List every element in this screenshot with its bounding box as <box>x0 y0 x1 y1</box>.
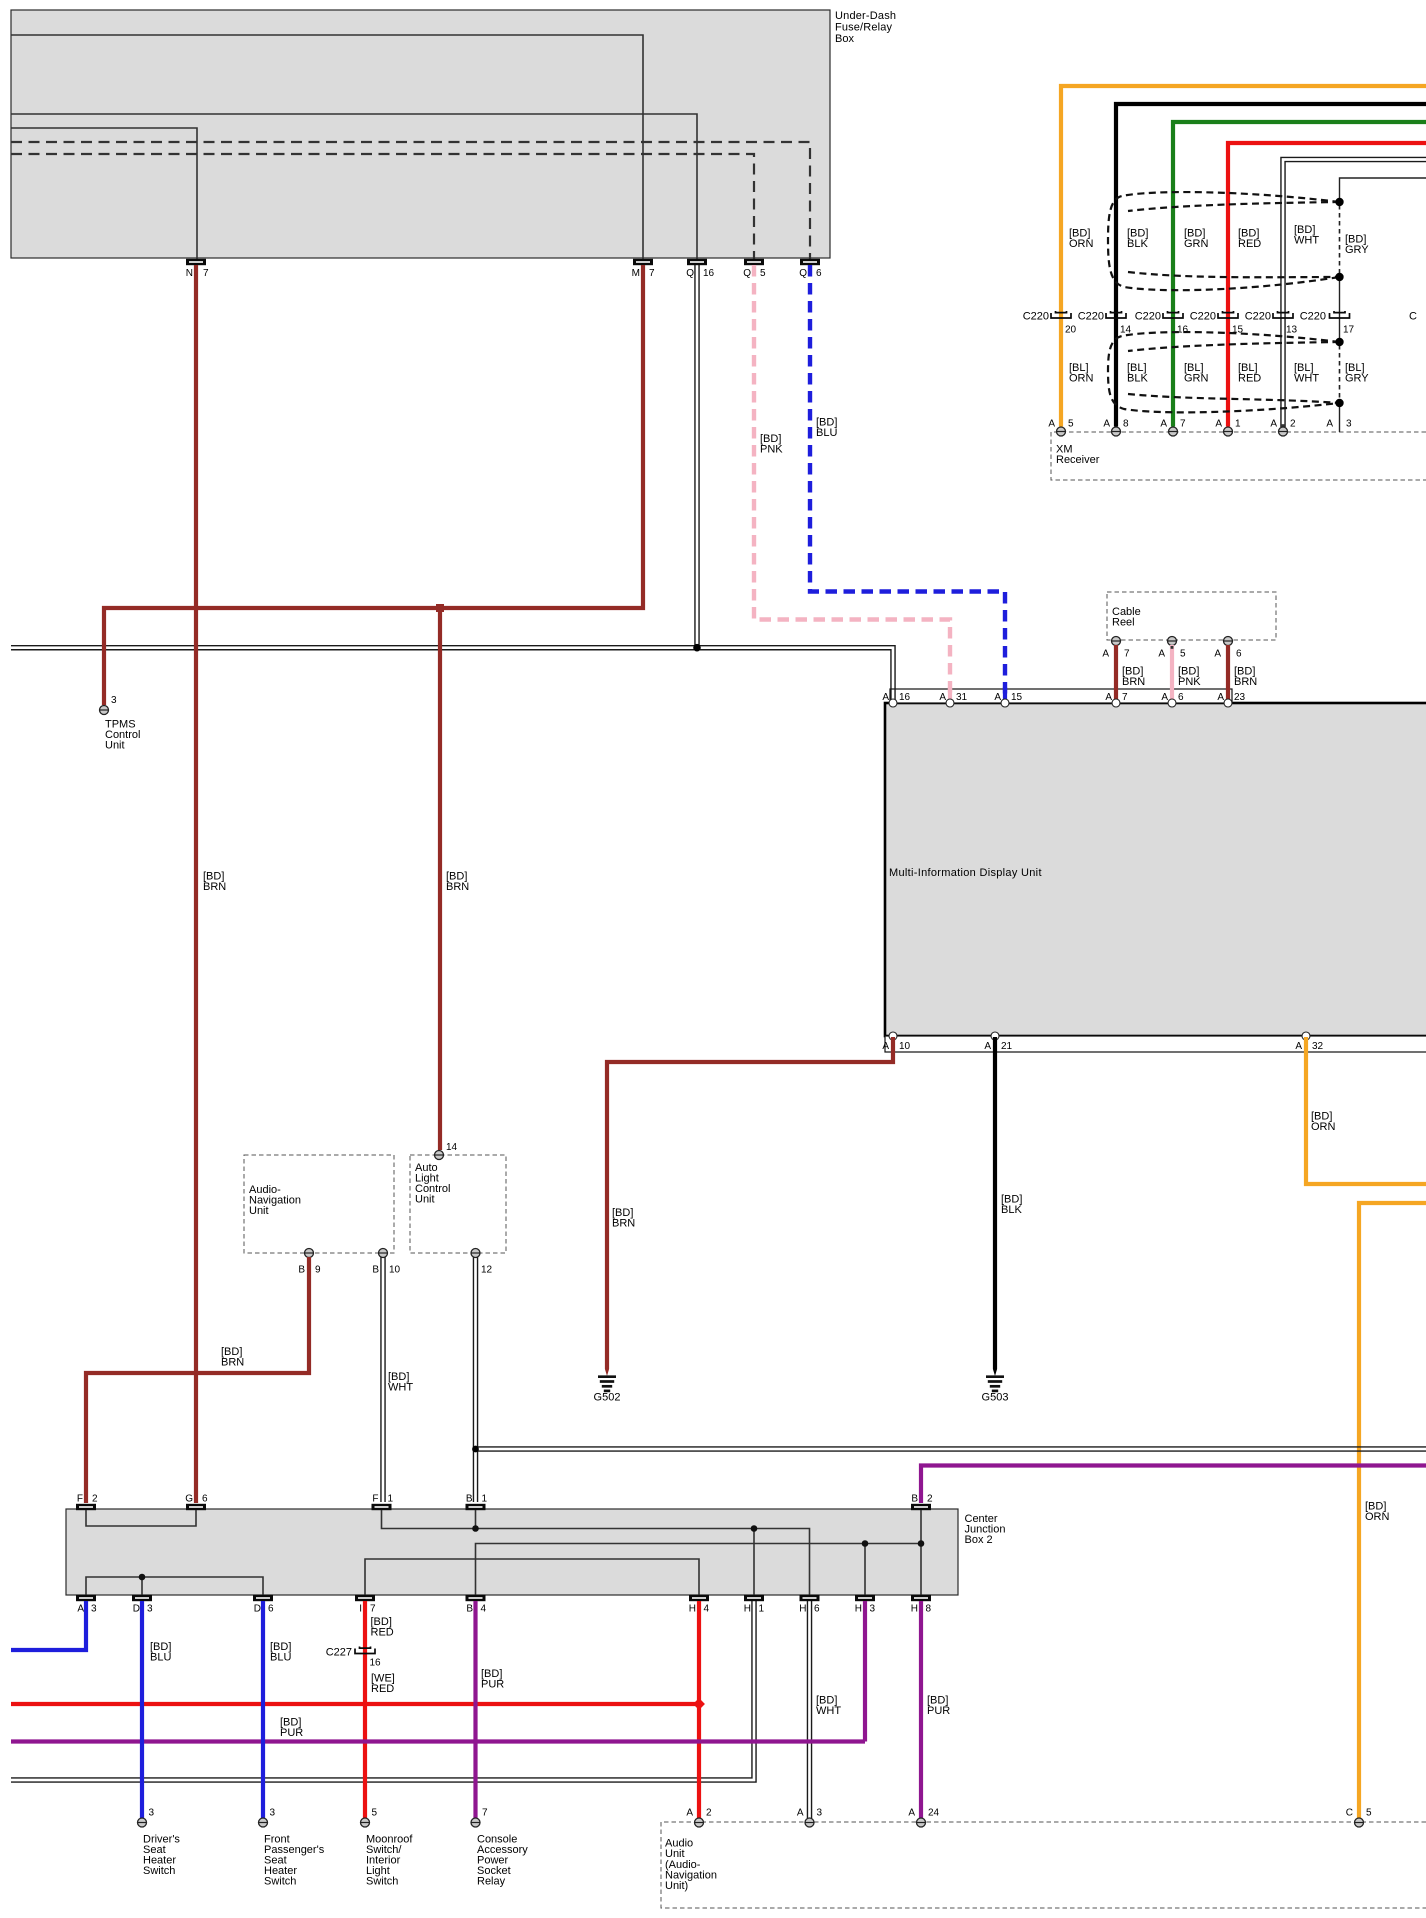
label [BD] GRN <box>1184 228 1209 251</box>
svg-text:15: 15 <box>1011 692 1023 703</box>
svg-text:Q: Q <box>799 268 807 279</box>
svg-text:H: H <box>744 1604 751 1615</box>
terminal auto light pin 12 <box>471 1249 493 1276</box>
wire fuse box internal line to Q16 <box>11 114 697 259</box>
wire [BD] BRN MID A10 to G502 <box>607 1037 893 1369</box>
svg-text:7: 7 <box>482 1808 488 1819</box>
junction dot BRN branch <box>436 604 444 612</box>
svg-text:7: 7 <box>1122 692 1128 703</box>
svg-text:PUR: PUR <box>481 1679 504 1691</box>
svg-text:WHT: WHT <box>388 1382 413 1394</box>
audio unit dashed box <box>661 1822 1426 1908</box>
wire fuse box internal dashed line to Q5 <box>11 154 754 259</box>
connector pin Q 5 <box>743 259 766 279</box>
connector C220 pin 17 <box>1300 311 1355 336</box>
label [BD] RED <box>1238 228 1261 251</box>
svg-text:A: A <box>1215 419 1222 430</box>
label [BD] BRN B9 wire <box>221 1346 244 1369</box>
svg-text:16: 16 <box>370 1658 382 1669</box>
svg-text:B: B <box>466 1604 473 1615</box>
multi-information display unit box <box>885 703 1426 1036</box>
shield oval lower outer <box>1108 332 1340 412</box>
connector C220 pin 14 <box>1078 311 1132 336</box>
ground G503 <box>982 1369 1009 1404</box>
cable reel dashed box <box>1107 592 1276 640</box>
svg-text:5: 5 <box>1366 1808 1372 1819</box>
label [BD] PUR B4 <box>481 1668 504 1691</box>
svg-text:Relay: Relay <box>477 1876 506 1888</box>
terminal XM A 1 <box>1215 419 1241 437</box>
wire [BD]/[WE] RED I7 to moonroof switch <box>363 1601 367 1818</box>
svg-text:G: G <box>185 1494 193 1505</box>
svg-text:8: 8 <box>926 1604 932 1615</box>
wire [BD] GRN XM <box>1173 122 1426 427</box>
svg-text:H: H <box>911 1604 918 1615</box>
svg-text:BRN: BRN <box>1234 676 1257 688</box>
svg-text:8: 8 <box>1123 419 1129 430</box>
svg-text:I: I <box>359 1604 362 1615</box>
svg-text:Multi-Information Display Unit: Multi-Information Display Unit <box>889 867 1042 879</box>
MID top connector bar <box>890 689 1232 703</box>
shield oval upper outer <box>1108 192 1340 290</box>
under-dash fuse/relay box <box>11 10 830 258</box>
shield junction dot lower top <box>1335 338 1343 346</box>
MID pin A 15 <box>994 692 1022 707</box>
svg-text:17: 17 <box>1343 325 1355 336</box>
wire [BD] RED XM <box>1228 143 1426 427</box>
label [BL] GRY <box>1345 362 1369 385</box>
shield oval upper inner <box>1128 202 1340 277</box>
svg-text:WHT: WHT <box>1294 235 1319 247</box>
label [BD] BLU <box>816 417 837 440</box>
wire white XM WHT <box>1281 157 1426 427</box>
wire end tick pink <box>1171 646 1174 649</box>
connector pin N 7 <box>186 259 209 279</box>
svg-text:7: 7 <box>1124 649 1130 660</box>
svg-text:ORN: ORN <box>1365 1511 1390 1523</box>
svg-text:D: D <box>254 1604 261 1615</box>
svg-text:BLU: BLU <box>270 1652 291 1664</box>
connector C220 pin 20 <box>1023 311 1077 336</box>
label [BL] BLK <box>1127 362 1148 385</box>
svg-text:B: B <box>298 1265 305 1276</box>
label [BD] WHT B10 wire <box>388 1371 413 1394</box>
connector C220 pin 13 <box>1245 311 1298 336</box>
junction dot white Q16 <box>693 644 701 652</box>
label [WE] RED <box>371 1673 395 1696</box>
svg-text:2: 2 <box>1290 419 1296 430</box>
svg-text:A: A <box>686 1808 693 1819</box>
CJB2 pin B 1 <box>466 1494 488 1511</box>
svg-text:Unit): Unit) <box>665 1880 688 1892</box>
svg-text:Q: Q <box>686 268 694 279</box>
center junction box 2 label <box>965 1513 1006 1546</box>
svg-text:A: A <box>1105 692 1112 703</box>
CJB2 pin D 6 <box>253 1595 274 1615</box>
terminal XM A 2 <box>1270 419 1296 437</box>
svg-text:C: C <box>1346 1808 1353 1819</box>
svg-text:2: 2 <box>706 1808 712 1819</box>
svg-text:6: 6 <box>814 1604 820 1615</box>
wire [BD] ORN from right edge to audio C5 <box>1359 1203 1426 1818</box>
svg-text:6: 6 <box>1236 649 1242 660</box>
svg-text:3: 3 <box>1346 419 1352 430</box>
svg-text:Switch: Switch <box>143 1865 175 1877</box>
wire [BD] PUR H8 to audio A24 <box>919 1601 923 1818</box>
CJB2 internal net B4-H3-B2-H8 <box>476 1510 922 1595</box>
svg-text:G503: G503 <box>982 1392 1009 1404</box>
auto light control unit label <box>415 1162 450 1206</box>
CJB2 pin B 2 <box>911 1494 933 1511</box>
CJB2 pin F 1 <box>372 1494 394 1511</box>
label [BD] PUR H8 <box>927 1695 950 1718</box>
svg-text:C: C <box>1409 311 1417 323</box>
wire [BD] BLU D6 to passenger seat heater switch <box>261 1601 265 1818</box>
svg-text:3: 3 <box>91 1604 97 1615</box>
svg-text:H: H <box>689 1604 696 1615</box>
svg-text:A: A <box>1158 649 1165 660</box>
driver seat heater switch label <box>143 1834 180 1878</box>
svg-text:GRY: GRY <box>1345 373 1369 385</box>
svg-text:BLK: BLK <box>1127 373 1148 385</box>
label [BD] BRN cable reel left <box>1122 666 1145 689</box>
wire [BD] BLK MID A21 to G503 <box>993 1037 997 1369</box>
wire [BD] BLU D3 to driver seat heater switch <box>140 1601 144 1818</box>
svg-text:BLU: BLU <box>150 1652 171 1664</box>
svg-text:2: 2 <box>92 1494 98 1505</box>
svg-text:C227: C227 <box>326 1647 352 1659</box>
MID pin A 31 <box>939 692 967 707</box>
svg-text:14: 14 <box>1120 325 1132 336</box>
svg-text:BRN: BRN <box>203 881 226 893</box>
svg-text:31: 31 <box>956 692 968 703</box>
svg-text:20: 20 <box>1065 325 1077 336</box>
passenger seat heater switch label <box>264 1834 325 1888</box>
MID pin A 6 <box>1161 692 1184 707</box>
svg-text:A: A <box>1102 649 1109 660</box>
svg-text:3: 3 <box>270 1808 276 1819</box>
svg-text:ORN: ORN <box>1069 238 1094 250</box>
shield oval lower inner <box>1128 342 1340 403</box>
connector pin Q 16 <box>686 259 714 279</box>
terminal cable reel A 7 <box>1102 637 1130 660</box>
svg-text:7: 7 <box>1180 419 1186 430</box>
MID pin A 21 <box>984 1032 1012 1052</box>
wire [BD] GRY shield dashed upper <box>1339 205 1341 274</box>
CJB2 junction dot H1 <box>751 1525 758 1532</box>
CJB2 pin H 3 <box>855 1595 876 1615</box>
console accessory power socket relay label <box>477 1834 528 1888</box>
svg-text:A: A <box>1295 1041 1302 1052</box>
label [BL] RED <box>1238 362 1261 385</box>
CJB2 pin H 4 <box>689 1595 710 1615</box>
wire white from B10 to F1 <box>381 1257 385 1502</box>
CJB2 internal net A3-D3-D6 <box>86 1577 263 1595</box>
wire [BD] PNK cable reel A5 to MID A6 <box>1170 645 1174 700</box>
svg-text:A: A <box>77 1604 84 1615</box>
svg-text:Fuse/Relay: Fuse/Relay <box>835 22 893 34</box>
svg-text:PNK: PNK <box>1178 676 1201 688</box>
svg-text:C220: C220 <box>1023 311 1049 323</box>
svg-text:7: 7 <box>370 1604 376 1615</box>
connector C220 pin 15 <box>1190 311 1244 336</box>
svg-text:24: 24 <box>928 1808 940 1819</box>
svg-text:14: 14 <box>446 1142 458 1153</box>
CJB2 junction dot B2-H8 <box>918 1540 925 1547</box>
svg-text:3: 3 <box>149 1808 155 1819</box>
terminal XM A 8 <box>1103 419 1129 437</box>
wire GRY shield solid mid <box>1339 277 1341 342</box>
svg-text:21: 21 <box>1001 1041 1013 1052</box>
svg-text:BLK: BLK <box>1001 1204 1022 1216</box>
CJB2 internal net F1-B1-H1-H6 <box>382 1510 810 1595</box>
svg-text:WHT: WHT <box>816 1705 841 1717</box>
wire [BD] PUR B4 to console relay <box>473 1601 477 1818</box>
terminal audio C 5 <box>1346 1808 1372 1828</box>
terminal XM A 7 <box>1160 419 1186 437</box>
svg-text:D: D <box>133 1604 140 1615</box>
svg-text:7: 7 <box>649 268 655 279</box>
svg-text:A: A <box>1103 419 1110 430</box>
connector C220 pin 16 <box>1135 311 1189 336</box>
svg-text:1: 1 <box>482 1494 488 1505</box>
CJB2 pin H 6 <box>799 1595 820 1615</box>
svg-text:15: 15 <box>1232 325 1244 336</box>
TPMS control unit label <box>105 719 140 752</box>
wire [BD] ORN MID A32 to right <box>1306 1037 1426 1184</box>
svg-text:5: 5 <box>1068 419 1074 430</box>
svg-text:3: 3 <box>870 1604 876 1615</box>
wire [BD] GRY shield line horizontal <box>1340 178 1426 202</box>
moonroof switch label <box>366 1834 413 1888</box>
svg-text:PUR: PUR <box>927 1705 950 1717</box>
wire fuse box internal dashed line to Q6 <box>11 142 810 259</box>
wire white horizontal right from junction <box>476 1447 1426 1451</box>
terminal XM A 3 <box>1326 419 1352 430</box>
terminal moonroof switch 5 <box>361 1808 378 1828</box>
svg-text:6: 6 <box>202 1494 208 1505</box>
svg-text:A: A <box>882 1041 889 1052</box>
terminal audio A 3 <box>797 1808 823 1828</box>
label [BD] BRN at branch wire <box>446 871 469 894</box>
svg-text:B: B <box>911 1494 918 1505</box>
svg-text:1: 1 <box>1235 419 1241 430</box>
terminal audio-nav B 9 <box>298 1249 321 1276</box>
svg-text:Reel: Reel <box>1112 617 1135 629</box>
label [BD] GRY <box>1345 234 1369 257</box>
svg-text:10: 10 <box>899 1041 911 1052</box>
label [BD] BRN cable reel right <box>1234 666 1257 689</box>
wire fuse box internal line to M7 <box>11 35 643 259</box>
CJB2 pin G 6 <box>185 1494 208 1511</box>
svg-text:RED: RED <box>1238 238 1261 250</box>
wire [BD] BLK XM <box>1116 104 1426 427</box>
wire [BD] BRN B9 to F2 <box>86 1257 309 1503</box>
wire white H6 to audio A3 <box>807 1601 811 1818</box>
svg-text:GRN: GRN <box>1184 238 1209 250</box>
label [BD] ORN A32 wire <box>1311 1111 1336 1134</box>
svg-text:B: B <box>466 1494 473 1505</box>
CJB2 junction dot B1 <box>472 1525 479 1532</box>
label [BD] BRN at N7 wire <box>203 871 226 894</box>
wire end tick white A2 <box>1282 424 1285 427</box>
svg-text:A: A <box>1270 419 1277 430</box>
svg-text:5: 5 <box>1180 649 1186 660</box>
terminal auto light pin 14 <box>435 1142 458 1160</box>
XM receiver label <box>1056 444 1100 467</box>
wire white horizontal to MID A16 <box>11 646 895 700</box>
svg-text:N: N <box>186 268 193 279</box>
terminal passenger seat heater switch 3 <box>259 1808 276 1828</box>
wire fuse box internal line to N7 <box>11 128 197 259</box>
wire [BD] BRN M7 to TPMS <box>104 265 643 705</box>
svg-text:BRN: BRN <box>1122 676 1145 688</box>
svg-text:PUR: PUR <box>280 1727 303 1739</box>
svg-text:10: 10 <box>389 1265 401 1276</box>
svg-text:A: A <box>908 1808 915 1819</box>
svg-text:G502: G502 <box>594 1392 621 1404</box>
svg-text:Unit: Unit <box>105 740 125 752</box>
wire [BD] RED H4 to audio A2 <box>697 1601 701 1818</box>
wire white H1 down and left <box>11 1601 756 1782</box>
svg-text:12: 12 <box>481 1265 493 1276</box>
svg-text:7: 7 <box>203 268 209 279</box>
svg-text:C220: C220 <box>1300 311 1326 323</box>
svg-text:3: 3 <box>111 695 117 706</box>
cable reel label <box>1112 606 1141 629</box>
MID pin A 16 <box>882 692 910 707</box>
CJB2 pin H 8 <box>911 1595 932 1615</box>
svg-text:A: A <box>1326 419 1333 430</box>
svg-text:Receiver: Receiver <box>1056 454 1100 466</box>
terminal audio A 24 <box>908 1808 939 1828</box>
auto light control unit dashed box <box>410 1155 506 1253</box>
svg-text:5: 5 <box>372 1808 378 1819</box>
svg-text:16: 16 <box>899 692 911 703</box>
svg-text:M: M <box>632 268 640 279</box>
MID pin A 32 <box>1295 1032 1323 1052</box>
svg-text:A: A <box>882 692 889 703</box>
svg-text:GRN: GRN <box>1184 373 1209 385</box>
svg-text:13: 13 <box>1286 325 1298 336</box>
wire [BD] BLU A3 down-left <box>11 1601 86 1650</box>
wire [BD] PNK dashed Q5 to MID A31 <box>754 265 950 700</box>
terminal console relay 7 <box>471 1808 488 1828</box>
junction dot white 12 wire <box>472 1446 479 1453</box>
svg-text:Switch: Switch <box>264 1876 296 1888</box>
svg-text:1: 1 <box>388 1494 394 1505</box>
svg-text:16: 16 <box>703 268 715 279</box>
wire PNK stub into bar <box>948 687 952 700</box>
label [BL] WHT <box>1294 362 1319 385</box>
MID bottom connector bar <box>885 1036 1426 1052</box>
svg-text:RED: RED <box>1238 373 1261 385</box>
wire [BD] BRN cable reel A7 to MID A7 <box>1114 645 1118 700</box>
MID pin A 7 <box>1105 692 1128 707</box>
CJB2 pin F 2 <box>76 1494 98 1511</box>
svg-text:6: 6 <box>268 1604 274 1615</box>
svg-text:C220: C220 <box>1245 311 1271 323</box>
wire [BD] PUR from right to B2 <box>921 1466 1426 1504</box>
wire white from pin 12 to B1 <box>473 1257 477 1502</box>
CJB2 junction dot D3 <box>139 1574 146 1581</box>
svg-text:ORN: ORN <box>1069 373 1094 385</box>
svg-text:RED: RED <box>371 1627 394 1639</box>
svg-text:16: 16 <box>1177 325 1189 336</box>
terminal audio-nav B 10 <box>372 1249 400 1276</box>
svg-text:Box 2: Box 2 <box>965 1534 993 1546</box>
CJB2 pin D 3 <box>132 1595 153 1615</box>
svg-text:A: A <box>1214 649 1221 660</box>
connector C227 pin 16 <box>326 1647 381 1669</box>
label [BD] RED I7 <box>371 1616 394 1639</box>
CJB2 pin B 4 <box>466 1595 487 1615</box>
svg-text:H: H <box>799 1604 806 1615</box>
svg-text:RED: RED <box>371 1683 394 1695</box>
terminal XM A 5 <box>1048 419 1074 437</box>
under-dash fuse/relay box label <box>835 10 896 45</box>
svg-text:A: A <box>939 692 946 703</box>
label [BD] BRN G502 wire <box>612 1207 635 1230</box>
CJB2 pin H 1 <box>744 1595 765 1615</box>
terminal TPMS pin 3 <box>100 695 118 715</box>
wire [BD] BRN cable reel A6 to MID A23 <box>1226 645 1230 700</box>
label [BL] ORN <box>1069 362 1094 385</box>
MID pin A 23 <box>1217 692 1245 707</box>
svg-text:C220: C220 <box>1078 311 1104 323</box>
svg-text:C220: C220 <box>1135 311 1161 323</box>
shield junction dot lower bottom <box>1335 399 1343 407</box>
label [BL] GRN <box>1184 362 1209 385</box>
label [BD] ORN C5 wire <box>1365 1501 1390 1524</box>
wire [BD] PUR H3 down-left <box>863 1601 867 1742</box>
svg-text:Q: Q <box>743 268 751 279</box>
wire [BD] PUR horizontal <box>11 1739 865 1743</box>
terminal cable reel A 5 <box>1158 637 1186 660</box>
wire BLU stub into bar <box>1003 687 1007 700</box>
svg-text:3: 3 <box>147 1604 153 1615</box>
wire [BD] RED horizontal <box>11 1702 699 1706</box>
audio-navigation unit label <box>249 1184 301 1217</box>
svg-text:6: 6 <box>816 268 822 279</box>
svg-text:2: 2 <box>927 1494 933 1505</box>
terminal audio A 2 <box>686 1808 712 1828</box>
terminal driver seat heater switch 3 <box>138 1808 155 1828</box>
svg-text:3: 3 <box>817 1808 823 1819</box>
shield junction dot upper bottom <box>1335 273 1343 281</box>
svg-text:H: H <box>855 1604 862 1615</box>
svg-text:A: A <box>1161 692 1168 703</box>
svg-text:BRN: BRN <box>446 881 469 893</box>
label [BD] WHT H6 <box>816 1695 841 1718</box>
audio unit label <box>665 1838 717 1893</box>
svg-text:A: A <box>994 692 1001 703</box>
CJB2 junction dot H3 <box>862 1540 869 1547</box>
svg-text:B: B <box>372 1265 379 1276</box>
label [BD] BLK G503 wire <box>1001 1194 1022 1217</box>
svg-text:5: 5 <box>760 268 766 279</box>
CJB2 internal net F2-G6 <box>86 1510 196 1526</box>
svg-text:WHT: WHT <box>1294 373 1319 385</box>
wire [BD] ORN XM top <box>1061 86 1426 427</box>
label [BD] WHT <box>1294 224 1319 247</box>
label [BD] BLU D6 <box>270 1641 291 1664</box>
svg-text:BLU: BLU <box>816 427 837 439</box>
svg-text:PNK: PNK <box>760 444 783 456</box>
svg-text:4: 4 <box>704 1604 710 1615</box>
svg-text:A: A <box>1160 419 1167 430</box>
svg-text:F: F <box>77 1494 83 1505</box>
